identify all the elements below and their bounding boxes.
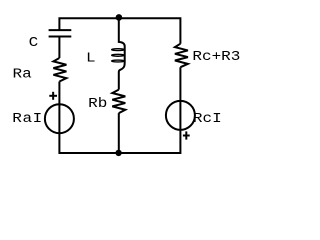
svg-text:Ra: Ra [13,66,32,82]
svg-text:RaI: RaI [12,111,42,127]
svg-text:C: C [29,35,39,51]
svg-text:RcI: RcI [193,111,222,127]
svg-text:Rc+R3: Rc+R3 [192,49,240,65]
svg-text:Rb: Rb [88,96,107,112]
svg-text:L: L [86,50,96,66]
